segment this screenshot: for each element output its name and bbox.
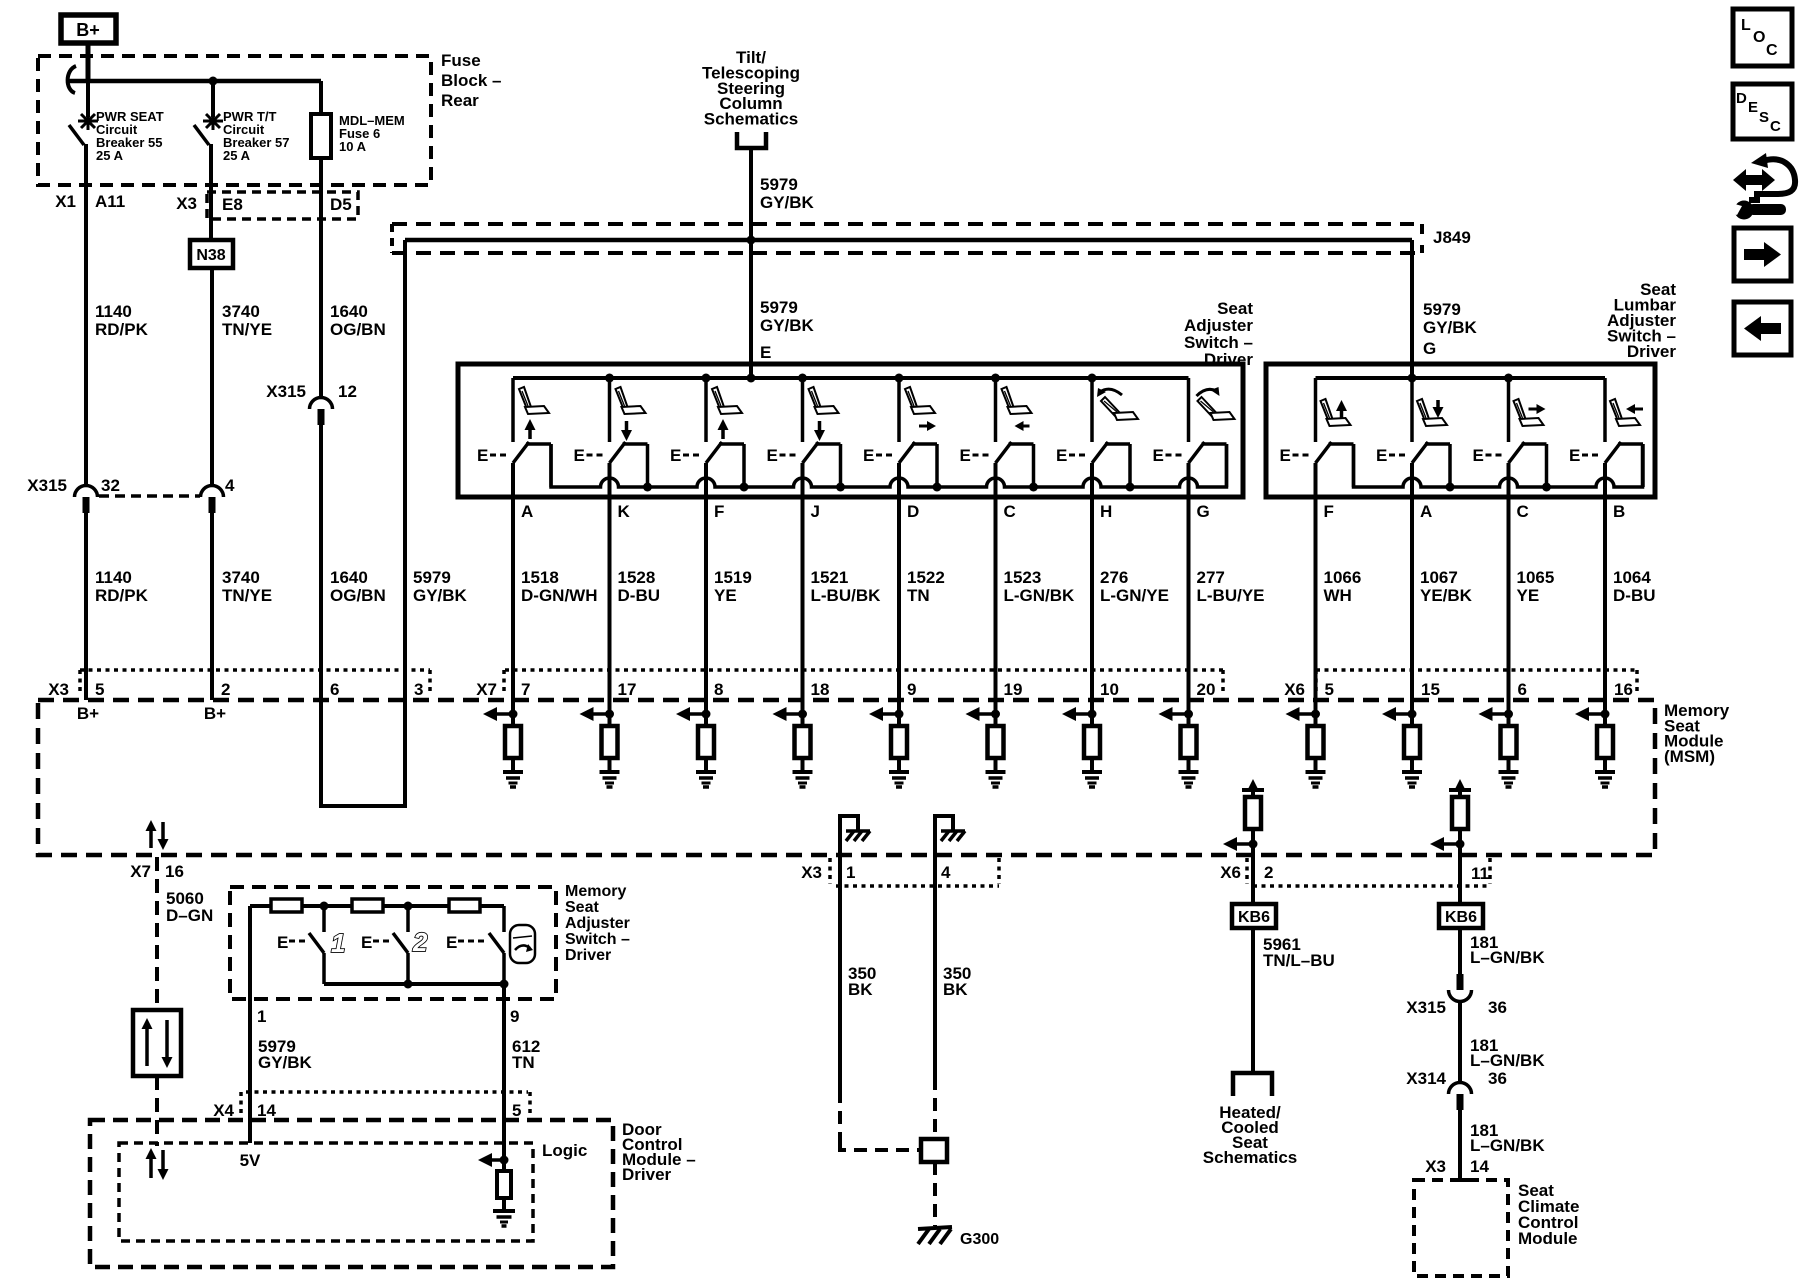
svg-text:A11: A11 [95,192,125,211]
svg-text:G: G [1423,339,1436,358]
node return bus [643,483,652,492]
svg-text:O: O [1753,29,1765,46]
svg-text:16: 16 [165,862,184,881]
svg-text:X3: X3 [801,863,822,882]
svg-text:277: 277 [1197,568,1225,587]
svg-text:5: 5 [512,1101,521,1120]
svg-text:X314: X314 [1406,1069,1446,1088]
svg-text:S: S [1759,109,1769,126]
MSM input sense pin 16 [1603,700,1607,726]
svg-text:Logic: Logic [542,1141,587,1160]
svg-text:1640: 1640 [330,302,368,321]
ground [600,770,620,774]
svg-text:BK: BK [943,980,968,999]
node switch feed [991,374,1000,383]
svg-text:B+: B+ [77,704,99,723]
svg-text:14: 14 [1470,1157,1489,1176]
svg-text:Adjuster: Adjuster [565,915,630,932]
MSM up/down driver arrows (X7-16) [149,829,153,848]
wire B+ to fuse block bus [86,43,91,81]
MSM input sense pin 15 [1410,700,1414,726]
svg-text:GY/BK: GY/BK [760,316,815,335]
icon LOC [1733,9,1792,66]
svg-text:TN/L–BU: TN/L–BU [1263,951,1335,970]
svg-text:KB6: KB6 [1445,909,1477,926]
KB6 pullup X6-2 [1242,788,1264,792]
svg-text:X3: X3 [176,194,197,213]
svg-text:GY/BK: GY/BK [258,1053,313,1072]
svg-text:5979: 5979 [1423,300,1461,319]
svg-text:A: A [1420,502,1432,521]
memory seat module (MSM) dashed box [38,700,1655,855]
seat adjuster switch - driver box [458,364,1243,497]
fuse MDL-MEM Fuse 6 [319,81,323,114]
svg-text:1065: 1065 [1517,568,1555,587]
svg-text:D: D [907,502,919,521]
svg-text:1518: 1518 [521,568,559,587]
svg-text:5979: 5979 [413,568,451,587]
svg-text:8: 8 [714,680,723,699]
MSM input sense pin 7 [511,700,515,726]
svg-text:D5: D5 [330,195,352,214]
wire 5979 GY/BK from steering column [749,148,753,378]
seat climate control module dashed box [1414,1180,1508,1276]
svg-text:OG/BN: OG/BN [330,320,386,339]
svg-text:Driver: Driver [1204,350,1254,369]
svg-text:C: C [1517,502,1529,521]
wire X6-2 to KB6 [1251,856,1255,904]
svg-text:9: 9 [907,680,916,699]
svg-text:1519: 1519 [714,568,752,587]
MSM input sense pin 17 [608,700,612,726]
inline connector X315 pin 32 [84,485,88,489]
connector code KB6 [1232,904,1276,928]
svg-text:Switch –: Switch – [565,931,630,948]
inline connector X315 pin 12 [310,398,333,409]
dashed wire to DCM [155,1076,159,1146]
svg-text:E: E [767,446,778,465]
icon wrench/arrows [1733,169,1775,191]
svg-text:J849: J849 [1433,228,1471,247]
svg-text:Block –: Block – [441,71,501,90]
svg-text:E: E [1569,446,1580,465]
svg-text:3740: 3740 [222,568,260,587]
inline connector X314 pin 36 [1449,1083,1472,1095]
chassis ground MSM pin X3-4 [935,816,953,856]
svg-text:YE: YE [1517,586,1540,605]
svg-text:H: H [1100,502,1112,521]
switch F (seat adjuster) [704,378,708,442]
wire 612 TN to DCM [502,984,506,1160]
svg-text:KB6: KB6 [1238,909,1270,926]
battery feed B+ box [61,15,116,43]
svg-text:6: 6 [1518,680,1527,699]
off-page ref bracket [1233,1073,1272,1096]
svg-text:5V: 5V [240,1151,261,1170]
svg-text:X7: X7 [476,680,497,699]
svg-text:L-BU/YE: L-BU/YE [1197,586,1265,605]
node lumbar bus/G-input [1408,374,1417,383]
svg-text:1067: 1067 [1420,568,1458,587]
svg-text:276: 276 [1100,568,1128,587]
seat lumbar adjuster switch - driver box [1266,364,1655,497]
ground [1082,770,1102,774]
node return bus [933,483,942,492]
wire 5961 TN/L-BU [1251,928,1255,1073]
svg-text:2: 2 [221,680,230,699]
connector code KB6 (climate) [1439,904,1483,928]
svg-text:10: 10 [1100,680,1119,699]
wire 5060 D-GN (X7-16) [155,857,159,1008]
wire 3740 TN/YE below N38 [210,268,214,487]
svg-text:9: 9 [510,1007,519,1026]
svg-text:C: C [1004,502,1016,521]
wire 5979 GY/BK to lumbar switch (G) [1410,240,1414,378]
svg-text:GY/BK: GY/BK [413,586,468,605]
svg-text:1: 1 [846,863,855,882]
switch G (seat adjuster) [1187,378,1191,442]
door control module - driver dashed box [90,1120,613,1267]
svg-text:4: 4 [941,863,951,882]
svg-text:D-GN/WH: D-GN/WH [521,586,597,605]
ground [696,770,716,774]
MSM input sense pin 10 [1090,700,1094,726]
wire 1522 TN [897,497,901,700]
svg-text:E: E [670,446,681,465]
svg-text:K: K [618,502,631,521]
svg-text:D-BU: D-BU [618,586,661,605]
logic dashed box [119,1143,533,1241]
icon DESC [1733,84,1792,139]
lumbar return bus with wire jumps [1354,444,1643,487]
svg-text:B+: B+ [204,704,226,723]
svg-text:F: F [714,502,724,521]
svg-text:16: 16 [1614,680,1633,699]
svg-text:1523: 1523 [1004,568,1042,587]
svg-text:J: J [811,502,820,521]
svg-text:A: A [521,502,533,521]
svg-text:25 A: 25 A [96,148,124,163]
ground [986,770,1006,774]
node return bus [740,483,749,492]
dashed connector link X315 [99,494,200,498]
svg-text:36: 36 [1488,998,1507,1017]
svg-text:C: C [1766,42,1778,59]
svg-text:4: 4 [225,476,235,495]
circuit breaker 55 (PWR SEAT) [86,81,90,117]
svg-text:1064: 1064 [1613,568,1651,587]
wire 1065 YE [1507,497,1511,700]
svg-text:E: E [446,933,457,952]
splice bus J849 [405,238,1412,243]
svg-text:D-BU: D-BU [1613,586,1656,605]
inline connector X315 pin 36 [1457,974,1464,990]
wire 1140 RD/PK lower [84,513,88,700]
fuse block bus wire [66,79,321,84]
svg-text:L-BU/BK: L-BU/BK [811,586,882,605]
node return bus [836,483,845,492]
wire 3740 TN/YE lower [210,513,214,700]
motor/updown box [133,1010,181,1076]
svg-text:X3: X3 [1425,1157,1446,1176]
svg-text:Driver: Driver [565,947,611,964]
switch B (lumbar) [1603,378,1607,442]
svg-text:6: 6 [330,680,339,699]
svg-text:GY/BK: GY/BK [760,193,815,212]
svg-text:E: E [1748,99,1758,116]
MSM input sense pin 19 [994,700,998,726]
node J849/5979 [747,236,756,245]
svg-text:5: 5 [1325,680,1334,699]
svg-text:E: E [1473,446,1484,465]
wire 1640 OG/BN lower [319,425,323,700]
lumbar switch common bus [1316,376,1606,380]
svg-text:10 A: 10 A [339,139,367,154]
svg-text:Seat: Seat [565,899,599,916]
svg-text:E8: E8 [222,195,243,214]
wire 1521 L-BU/BK [801,497,805,700]
circuit breaker 57 (PWR T/T) [211,81,215,117]
wire 1640 OG/BN (fuse out) [319,158,323,398]
node bus/E-input [747,374,756,383]
node switch feed [1088,374,1097,383]
svg-text:TN/YE: TN/YE [222,320,272,339]
wire 276 L-GN/YE [1090,497,1094,700]
node switch feed [605,374,614,383]
svg-text:X315: X315 [266,382,306,401]
svg-text:D: D [1736,90,1747,107]
node return bus [1029,483,1038,492]
svg-text:TN: TN [512,1053,535,1072]
svg-text:X7: X7 [130,862,151,881]
svg-text:B+: B+ [76,20,100,40]
svg-text:E: E [1280,446,1291,465]
wire 1519 YE [704,497,708,700]
memory set switch [502,906,506,932]
svg-text:E: E [863,446,874,465]
svg-text:N38: N38 [196,247,225,264]
node lumbar return bus [1446,483,1455,492]
svg-text:X4: X4 [213,1101,234,1120]
svg-text:12: 12 [338,382,357,401]
svg-text:X315: X315 [1406,998,1446,1017]
node switch feed [702,374,711,383]
svg-text:1640: 1640 [330,568,368,587]
svg-text:Module: Module [1518,1229,1578,1248]
svg-text:Driver: Driver [1627,342,1677,361]
node return bus [1126,483,1135,492]
svg-text:(MSM): (MSM) [1664,747,1715,766]
svg-text:OG/BN: OG/BN [330,586,386,605]
ground (logic) [493,1209,515,1213]
relay box N38 [190,240,233,268]
X4 connector row [246,1090,528,1094]
svg-text:15: 15 [1421,680,1440,699]
svg-text:G300: G300 [960,1231,999,1248]
svg-text:25 A: 25 A [223,148,251,163]
ground [1499,770,1519,774]
inline connector X315 pin 4 [201,486,224,498]
wire 1064 D-BU [1603,497,1607,700]
ground [889,770,909,774]
wire 1066 WH [1314,497,1318,700]
svg-text:X6: X6 [1284,680,1305,699]
memory switch return bus [324,982,504,986]
ground [1595,770,1615,774]
switch F (lumbar) [1314,378,1318,442]
svg-text:WH: WH [1324,586,1352,605]
switch common bus (E) [513,376,1189,380]
car icon [510,925,535,963]
svg-text:L-GN/BK: L-GN/BK [1004,586,1076,605]
node switch feed [895,374,904,383]
svg-text:1: 1 [257,1007,266,1026]
svg-text:G: G [1197,502,1210,521]
wire 350 BK (pin 1) [838,856,842,1090]
KB6 pullup X6-11 [1449,788,1471,792]
svg-text:Rear: Rear [441,91,479,110]
wire 181 L-GN/BK mid [1458,1001,1462,1083]
wire 1528 D-BU [608,497,612,700]
svg-text:E: E [760,343,771,362]
svg-text:B: B [1613,502,1625,521]
svg-text:F: F [1324,502,1334,521]
svg-text:X1: X1 [55,192,76,211]
node switch feed [798,374,807,383]
svg-text:1066: 1066 [1324,568,1362,587]
svg-text:TN/YE: TN/YE [222,586,272,605]
svg-text:1: 1 [331,928,345,958]
ground [1306,770,1326,774]
DCM up/down arrows [149,1157,153,1178]
wire 181 L-GN/BK lower [1458,1110,1462,1180]
splice junction [921,1139,947,1162]
svg-text:1140: 1140 [95,568,132,587]
wire X6-11 to KB6 [1458,856,1462,904]
MSM top connector row dotted lines [80,668,430,672]
svg-text:X315: X315 [27,476,67,495]
svg-text:Schematics: Schematics [1203,1148,1298,1167]
wire 1140 RD/PK (breaker 55 out) [84,144,88,487]
svg-text:1522: 1522 [907,568,945,587]
svg-text:C: C [1770,118,1781,135]
svg-text:19: 19 [1004,680,1023,699]
svg-text:E: E [1376,446,1387,465]
MSM input sense pin 6 [1507,700,1511,726]
svg-text:BK: BK [848,980,873,999]
svg-text:11: 11 [1471,864,1489,883]
svg-text:E: E [574,446,585,465]
wire 1067 YE/BK [1410,497,1414,700]
svg-text:TN: TN [907,586,930,605]
MSM input sense pin 18 [801,700,805,726]
svg-text:32: 32 [101,476,120,495]
chassis ground MSM pin X3-1 [840,816,858,856]
icon arrow left [1734,302,1791,355]
memory seat adjuster switch - driver dashed box [230,887,556,999]
wire 181 L-GN/BK [1458,928,1462,975]
switch C (seat adjuster) [994,378,998,442]
memory switch 1 [322,906,326,932]
svg-text:L–GN/BK: L–GN/BK [1470,948,1545,967]
svg-text:E: E [960,446,971,465]
memory switch 2 [406,906,410,932]
svg-text:E: E [277,933,288,952]
svg-text:X6: X6 [1220,863,1241,882]
splice pack J849 dashed outline [392,222,1414,226]
svg-text:2: 2 [412,927,428,957]
svg-text:L–GN/BK: L–GN/BK [1470,1051,1545,1070]
ground [503,770,523,774]
svg-text:YE/BK: YE/BK [1420,586,1473,605]
svg-text:2: 2 [1264,863,1273,882]
ground G300 [918,1227,952,1229]
svg-text:E: E [477,446,488,465]
svg-text:3: 3 [414,680,423,699]
node lumbar return bus [1542,483,1551,492]
wire 5979 GY/BK to MSM pin 3 [403,240,407,700]
wire 1523 L-GN/BK [994,497,998,700]
switch return bus with wire jumps [551,444,1227,487]
ground [1179,770,1199,774]
svg-text:Memory: Memory [565,883,626,900]
svg-text:Driver: Driver [622,1165,672,1184]
internal link pins 6 and 3 [321,700,405,806]
svg-text:L: L [1741,17,1751,34]
wire 350 BK (pin 4) [933,856,937,1077]
svg-text:18: 18 [811,680,830,699]
svg-text:14: 14 [257,1101,276,1120]
svg-text:20: 20 [1197,680,1216,699]
svg-text:Fuse: Fuse [441,51,481,70]
wire 5979 GY/BK to DCM [248,906,252,1143]
svg-text:RD/PK: RD/PK [95,320,149,339]
switch A (lumbar) [1410,378,1414,442]
svg-text:X3: X3 [48,680,69,699]
icon arrow right [1734,228,1791,281]
svg-text:17: 17 [618,680,637,699]
node lumbar feed C [1504,374,1513,383]
wire to G300 [933,1162,937,1226]
svg-text:1140: 1140 [95,302,132,321]
svg-text:1521: 1521 [811,568,849,587]
svg-text:YE: YE [714,586,737,605]
fuse block - rear dashed box [38,56,431,185]
MSM input sense pin 20 [1187,700,1191,726]
wire 3740 TN/YE (breaker 57 out) [209,144,213,240]
node bus/breaker57 [209,77,218,86]
resistor chain [250,904,271,908]
switch D (seat adjuster) [897,378,901,442]
svg-text:GY/BK: GY/BK [1423,318,1478,337]
svg-text:E: E [1153,446,1164,465]
svg-text:5979: 5979 [760,175,798,194]
svg-text:Schematics: Schematics [704,110,799,129]
svg-text:36: 36 [1488,1069,1507,1088]
wire 277 L-BU/YE [1187,497,1191,700]
switch A (seat adjuster) [511,378,515,442]
ground [793,770,813,774]
switch K (seat adjuster) [608,378,612,442]
MSM input sense pin 5 [1314,700,1318,726]
switch C (lumbar) [1507,378,1511,442]
switch J (seat adjuster) [801,378,805,442]
svg-text:E: E [1056,446,1067,465]
svg-text:5: 5 [95,680,104,699]
svg-text:L–GN/BK: L–GN/BK [1470,1136,1545,1155]
switch H (seat adjuster) [1090,378,1094,442]
svg-text:E: E [361,933,372,952]
